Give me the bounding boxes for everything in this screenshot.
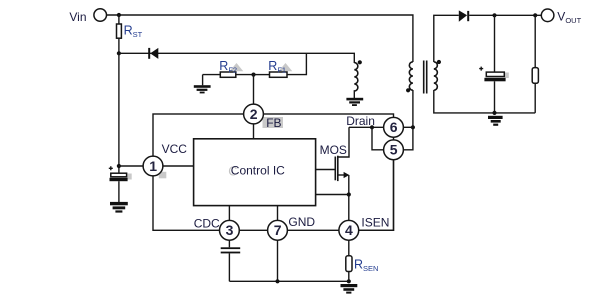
phase dot aux: [358, 60, 362, 64]
node junction dot RSEN bottom: [347, 279, 351, 283]
svg-text:RF1: RF1: [268, 59, 286, 75]
resistor Rload: [534, 15, 536, 67]
svg-text:FB: FB: [266, 116, 281, 130]
wire pin7 stub: [277, 206, 279, 221]
node junction dot VCC: [117, 164, 121, 168]
node junction dot source/sense: [347, 192, 351, 196]
wire pin2 to Control IC: [253, 124, 255, 139]
ground below CVCC: [110, 202, 128, 213]
node Vout terminal: [541, 9, 554, 22]
shadow artifact near CVCC: [127, 174, 132, 180]
svg-text:GND: GND: [288, 215, 315, 229]
node divider junction dot: [251, 73, 255, 77]
phase dot secondary: [437, 60, 441, 64]
wire sense lead from Control IC: [316, 194, 349, 196]
shadow artifact near COUT: [505, 73, 509, 79]
ground below RSEN: [341, 284, 358, 294]
diode D1 (startup, cathode left): [148, 48, 150, 59]
phase dot primary: [406, 88, 410, 92]
wire top rail from Vin to transformer primary: [107, 15, 413, 62]
wire VCC vertical feed: [118, 53, 120, 173]
transformer T1 secondary winding: [434, 62, 438, 90]
node junction dot at diode line: [117, 51, 121, 55]
resistor RSEN: [348, 240, 350, 256]
wire ISEN to pin5: [359, 160, 394, 231]
pin 4 ISEN: [339, 220, 359, 240]
wire diode feed line to aux winding: [119, 53, 354, 63]
wire drain to pin5: [372, 127, 384, 150]
svg-text:2: 2: [250, 106, 258, 122]
wire diode to Vout: [469, 14, 541, 16]
capacitor CDC: [228, 240, 230, 247]
svg-text:Control IC: Control IC: [231, 163, 285, 177]
wire drain node to pin6: [349, 126, 384, 128]
wire pin3 stub: [228, 206, 230, 221]
node junction dot bottom rail pin7: [275, 279, 279, 283]
node Vin terminal: [94, 9, 107, 22]
svg-text:RF2: RF2: [219, 59, 237, 75]
wire from VCC node to pin 1: [119, 165, 143, 167]
pin 5: [384, 140, 404, 160]
inductor aux winding: [354, 63, 358, 91]
ground below RF2: [194, 85, 211, 93]
ground below aux winding: [346, 98, 363, 106]
svg-text:RSEN: RSEN: [354, 257, 378, 273]
shadow artifact near pin 1: [159, 172, 167, 179]
node junction dot bottom rail: [492, 111, 496, 115]
IC package box U1: [153, 114, 394, 230]
node junction dot pin6 right: [411, 125, 415, 129]
diode D2 (output rectifier): [459, 10, 467, 21]
capacitor CVCC (polarized): [111, 173, 127, 177]
svg-text:ISEN: ISEN: [361, 216, 389, 230]
capacitor COUT (polarized): [494, 15, 496, 72]
svg-text:6: 6: [390, 119, 398, 135]
svg-text:RST: RST: [124, 24, 143, 40]
svg-text:Vin: Vin: [69, 10, 86, 24]
svg-text:4: 4: [345, 222, 353, 238]
ground output: [488, 116, 503, 126]
wire RF2 to ground: [202, 75, 204, 86]
svg-text:3: 3: [226, 222, 234, 238]
shadow artifact near RF2 label: [230, 63, 244, 71]
node junction dot drain: [370, 125, 374, 129]
transistor MOS: [334, 157, 336, 181]
svg-text:MOS: MOS: [320, 143, 347, 157]
pin 6 Drain: [384, 117, 404, 137]
node junction dot at RST top: [117, 13, 121, 17]
resistor RST: [117, 24, 122, 38]
Control IC block: [194, 139, 316, 206]
wire bottom rail: [229, 280, 348, 282]
wire divider junction to pin 2: [253, 75, 255, 105]
resistor RF1: [254, 74, 270, 76]
wire pin1 to Control IC: [163, 165, 194, 167]
svg-text:Drain: Drain: [346, 114, 375, 128]
node junction dot output cap top: [492, 13, 496, 17]
wire aux to ground: [353, 90, 355, 98]
wire pin6 to primary vertical: [403, 126, 413, 128]
pin 7 GND: [268, 220, 288, 240]
shadow artifact near RF1 label: [279, 63, 293, 71]
svg-text:CDC: CDC: [194, 217, 220, 231]
transformer T1 primary winding: [409, 62, 413, 90]
wire RST leads: [118, 15, 120, 24]
wire output bottom rail: [434, 90, 535, 113]
svg-text:7: 7: [274, 222, 282, 238]
node junction dot load top: [533, 13, 537, 17]
transformer T1 core: [423, 61, 425, 94]
svg-text:1: 1: [149, 158, 157, 174]
pin 3 CDC: [220, 220, 240, 240]
wire secondary top to output diode: [434, 15, 459, 62]
resistor RF2: [203, 74, 221, 76]
svg-text:VOUT: VOUT: [557, 10, 581, 26]
svg-text:5: 5: [390, 142, 398, 158]
svg-text:VCC: VCC: [162, 142, 188, 156]
wire primary bottom to pins 6/5: [403, 90, 413, 150]
pin 1 VCC: [143, 156, 163, 176]
pin 2 FB: [244, 104, 264, 124]
shadow artifact behind FB label: [263, 117, 284, 128]
wire gate lead: [316, 169, 336, 171]
wire pin7 to bottom rail: [277, 240, 279, 281]
